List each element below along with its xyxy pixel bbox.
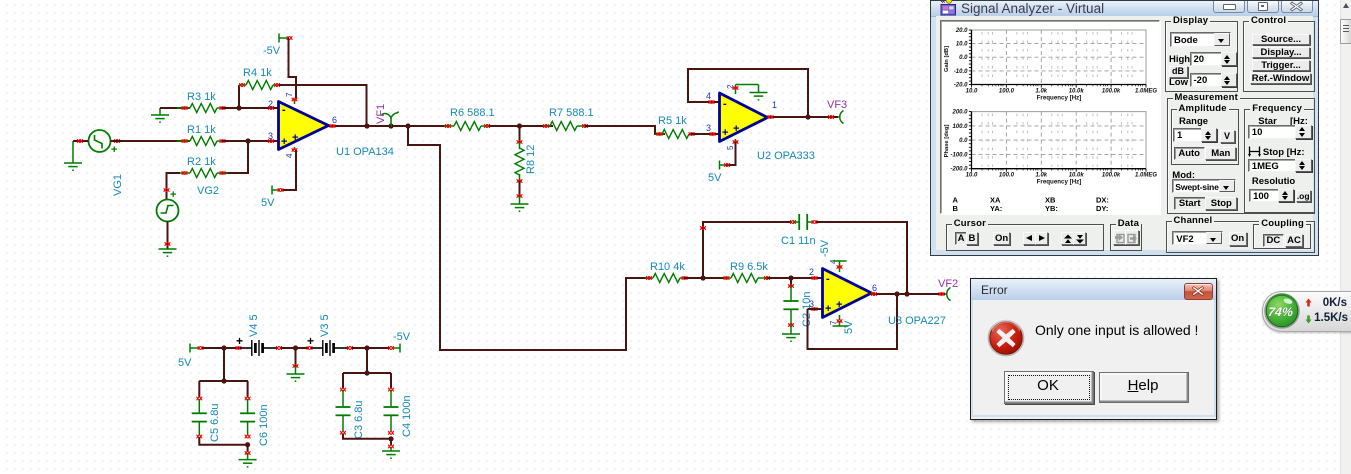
pin number 4 [285,153,294,158]
pin marker V4 right [276,346,282,350]
svg-text:200.0: 200.0 [951,110,968,116]
resistor R1 [177,137,229,146]
content area [936,16,1313,250]
pin marker R7 left [543,124,549,128]
capacitor C2 [784,286,799,325]
svg-text:-: - [282,104,286,116]
power terminal 5V U3 [833,321,849,326]
pin marker R4 right [274,83,280,87]
label 5V rail [178,357,192,369]
pin marker R10 right [682,276,688,280]
svg-text:VG1: VG1 [112,174,124,196]
wire U3 output [869,293,945,295]
svg-text:+: + [111,144,117,156]
label V3 5 [319,314,331,337]
pin marker 5V U2 [724,163,730,167]
svg-text:-: - [826,273,830,285]
label C1 11n [781,235,816,247]
wire C1 to U3 output [816,222,907,294]
graph panel [940,20,1160,214]
power terminal -5V [279,34,287,43]
wire U2 output [766,116,838,118]
pin number 2 [268,99,273,109]
wire C6 top lead [247,381,249,397]
pin marker C1 right [812,220,818,224]
wire U1 output [329,125,449,127]
resistor R7 [543,122,590,131]
pin marker -5V rail [388,346,394,350]
wire C4 top lead [390,373,392,388]
label C2 10n [801,292,813,327]
wire C5 top lead [198,381,200,397]
wire down to third stage [408,126,650,350]
label -5V U3 [819,239,831,257]
wire R10 to R9 [684,277,728,279]
pin marker R1 right [220,139,226,143]
wire left cap rail [199,348,248,381]
junction out A [364,123,369,128]
node VF3 probe [838,111,844,124]
svg-text:1: 1 [772,100,777,110]
svg-text:5: 5 [726,145,735,150]
resistor R9 [723,274,770,283]
svg-text:100.0k: 100.0k [1102,89,1121,95]
wire R9 to U3 pin2 [767,277,822,279]
svg-text:R9 6.5k: R9 6.5k [730,261,768,273]
svg-text:+: + [307,334,314,348]
wire node to R2 [222,141,248,173]
svg-text:U1 OPA134: U1 OPA134 [336,146,394,158]
pin marker R3 left [182,106,188,110]
battery V3 [311,340,348,356]
wire C3 bottom [343,434,391,439]
svg-text:0.0: 0.0 [959,138,968,144]
label C6 100n [258,404,270,446]
node VF1 probe [382,112,399,127]
wire -5V to U1 pin 7 [289,38,297,99]
Cursor group [946,224,1104,251]
wire R3 to U1 pin 2 [222,107,278,109]
pin marker C2 top [788,284,794,288]
pin marker R9 left [724,276,730,280]
pin marker R8 gnd [517,194,523,198]
Signal Analyzer - Virtual window [930,0,1319,256]
label VF2 [938,278,958,290]
svg-text:V4 5: V4 5 [248,314,260,337]
pin marker U2 out [768,115,774,119]
pin number 4 U3 [829,259,838,264]
pin marker R6 left [445,124,451,128]
resistor R8 [515,142,524,181]
Help button [1099,372,1189,403]
pin marker V4 left [236,346,242,350]
svg-text:VF3: VF3 [827,99,847,111]
svg-text:0.0: 0.0 [959,55,968,61]
pin marker R6 right [484,124,490,128]
power terminal 5V rail [190,344,199,353]
pin marker R3 right [220,106,226,110]
svg-text:VG2: VG2 [197,185,219,197]
junction C6 gnd [245,442,250,447]
pin marker VF2 [939,292,945,296]
junction U3 out B [904,291,909,296]
resistor R6 [444,122,492,131]
junction C1 node [700,275,705,280]
wire node up to R4 [238,85,240,108]
wire V4 to V3 [281,347,309,349]
label C4 100n [401,395,413,437]
pin marker U1 pin7 [292,98,298,102]
junction out B [388,123,393,128]
svg-text:YA:: YA: [990,204,1002,213]
svg-text:U3 OPA227: U3 OPA227 [888,315,946,327]
svg-text:5V: 5V [708,172,722,184]
svg-text:74%: 74% [1267,305,1293,319]
wire R4 to output [279,85,367,126]
title text [961,1,1104,16]
wire R6 to R7 [489,125,553,127]
svg-text:R1 1k: R1 1k [187,124,216,136]
wire C5 bottom [199,437,247,445]
voltage source VG2 [157,189,179,222]
wire C3 top lead [342,373,344,388]
resistor R5 [655,130,700,139]
Error dialog [970,278,1217,420]
svg-text:VF2: VF2 [938,278,958,290]
junction R8 node [517,123,522,128]
pin marker U1 pin4 [292,148,298,152]
wire right cap rail [343,348,391,373]
svg-text:V3 5: V3 5 [319,314,331,337]
close button [1281,1,1313,13]
label V4 5 [248,314,260,337]
pin marker C6 top [245,397,251,401]
junction U3 out A [894,291,899,296]
label R8 12 [525,145,537,174]
svg-text:+: + [836,299,842,311]
power terminal 5V [272,186,280,195]
ground of VG1 [64,141,88,170]
svg-text:100.0: 100.0 [999,89,1015,95]
pin marker V3 left [307,346,313,350]
ground of R3 [151,108,169,122]
power terminal -5V rail [393,344,400,353]
pin marker U1 pin3 [268,139,274,143]
resistor R2 [177,169,229,178]
label VF1 [375,104,387,124]
label R6 588.1 [450,107,495,119]
pin marker R10 left [646,276,652,280]
svg-text:2: 2 [809,267,814,277]
junction out C [405,123,410,128]
pin number 3 [268,131,273,141]
capacitor C3 [336,390,351,431]
pin number 3 U3 [809,299,814,309]
svg-text:10.0: 10.0 [956,42,968,48]
pin marker VG2 bottom [165,242,171,246]
pin number 7 U3 [829,320,838,325]
ground of U2 [736,85,768,100]
pin marker C6 gnd [245,451,251,455]
ground of R8 [511,196,529,211]
svg-text:20.0: 20.0 [955,28,968,34]
label R2 1k [187,156,216,168]
wire V3 to -5V [352,347,390,349]
svg-text:100.0: 100.0 [999,173,1015,179]
pin marker C4 bottom [388,431,394,435]
svg-text:10.0: 10.0 [966,89,978,95]
capacitor C1 [793,214,813,230]
pin marker U1 pin2 [268,106,274,110]
svg-text:5V: 5V [843,320,855,334]
Amplitude group [1171,109,1239,165]
ground of C2 [782,325,800,341]
capacitor C6 [240,399,255,435]
svg-text:3: 3 [809,299,814,309]
label plus V4 [236,334,243,348]
pin marker -5V [287,36,293,40]
pin marker U3 pin2 [812,276,818,280]
Display group [1165,21,1238,92]
svg-text:C4 100n: C4 100n [401,395,413,437]
op-amp U1 [279,99,329,150]
ground of rail [287,366,305,381]
ground of VG2 [159,222,177,257]
network speed widget [1262,291,1351,332]
pin number 6 U3 [872,283,877,293]
junction U2 out [805,114,810,119]
pin marker C5 bottom [197,435,203,439]
pin marker R9 right [764,276,770,280]
wire R5 to U2 pin3 [691,133,719,135]
pin marker C4 gnd [388,445,394,449]
pin marker R8 top [517,140,523,144]
svg-text:7: 7 [285,92,294,97]
pin marker R2 left [182,171,188,175]
wire R1 to U1 pin 3 [222,140,278,142]
pin marker VG2 top [164,188,170,192]
svg-text:+: + [281,136,287,148]
pin marker VG1 left [77,139,83,143]
pin marker R5 left [657,132,663,136]
wire C1 loop left [703,222,791,278]
svg-text:-5V: -5V [393,331,411,343]
svg-text:5V: 5V [261,197,275,209]
voltage source VG1 [89,130,118,156]
close button [1184,283,1213,300]
power terminal 5V U2 [720,161,727,170]
Coupling group [1253,224,1311,249]
label R4 1k [243,67,272,79]
pin marker U2 pin4 [709,100,715,104]
pin marker 5V [278,188,284,192]
pin marker U3 out [871,292,877,296]
svg-text:5V: 5V [178,357,192,369]
svg-text:6: 6 [872,283,877,293]
op-amp U2 [720,85,768,143]
svg-text:+: + [825,303,831,315]
wire pin3 stub [808,308,823,310]
pin marker U3 pin3 [812,307,818,311]
wire mid to ground [295,348,297,366]
label VG2 [197,185,219,197]
junction rail B [364,345,369,350]
battery V4 [240,340,277,356]
svg-text:-5V: -5V [263,45,281,57]
Data group [1110,224,1142,251]
pin number 1 U2 [772,100,777,110]
power terminal -5V U3 [833,261,847,266]
wire 5V to V4 [202,347,240,349]
svg-text:+: + [733,123,739,135]
svg-text:C5 6.8u: C5 6.8u [209,403,221,442]
resistor R4 [239,81,281,90]
svg-text:U2 OPA333: U2 OPA333 [757,150,815,162]
maximize button [1247,1,1279,13]
svg-text:+: + [170,189,176,201]
svg-text:10.0: 10.0 [966,173,978,179]
svg-text:C1 11n: C1 11n [781,235,816,247]
pin marker C1 corner [700,226,706,230]
label R7 588.1 [549,107,594,119]
label R9 6.5k [730,261,768,273]
pin marker C4 top [388,388,394,392]
pin marker U1 out [330,124,336,128]
pin marker C3 bottom [340,431,346,435]
svg-text:R8 12: R8 12 [525,145,537,174]
label 5V [261,197,275,209]
svg-text:+: + [236,334,243,348]
wire node to C2 [790,278,792,286]
label VG1 [112,174,124,196]
op-amp U3 [823,266,872,320]
svg-text:3: 3 [268,131,273,141]
label C3 6.8u [353,400,365,439]
pin marker R8 bottom [517,179,523,183]
label C5 6.8u [209,403,221,442]
junction node input [245,138,250,143]
Measurement group [1167,98,1315,214]
label plus V3 [307,334,314,348]
pin marker U3 vplus [837,265,843,269]
svg-text:3: 3 [706,123,711,133]
pin marker 5V rail [198,346,204,350]
svg-text:B: B [953,204,959,213]
pin marker C5 top [197,397,203,401]
pin number 4 U2 [706,91,711,101]
svg-text:C6 100n: C6 100n [258,404,270,446]
pin marker U2 pin2 [733,86,739,90]
label 5V U2 [708,172,722,184]
wire C6 to ground [247,445,249,452]
wire U2 feedback [688,69,808,117]
ground of C6 [239,453,257,467]
pin marker R4 left [239,83,245,87]
junction C2 node [788,275,793,280]
title bar [931,1,1318,17]
pin marker R5 right [689,132,695,136]
resistor R10 [645,274,690,283]
svg-text:R3 1k: R3 1k [187,91,216,103]
pin marker U2 pin3 [710,132,716,136]
capacitor C4 [384,390,399,431]
svg-text:Gain [dB]: Gain [dB] [944,46,950,72]
svg-text:-: - [723,98,727,110]
pin marker mid gnd [293,364,299,368]
pin number 7 [285,92,294,97]
wire U3 feedback [808,294,898,349]
wire VG1 to R1 [111,140,191,142]
right scrollbar [1340,0,1351,474]
pin marker VF3 [828,115,834,119]
Frequency group [1244,109,1315,213]
wire C4 to ground [390,439,392,446]
svg-text:R6 588.1: R6 588.1 [450,107,495,119]
pin marker V3 right [347,346,353,350]
svg-text:100.0: 100.0 [952,124,968,130]
svg-text:1.0MEG: 1.0MEG [1135,89,1157,95]
wire R8 to ground [519,181,521,196]
svg-text:-100.0: -100.0 [950,152,968,158]
svg-text:-5V: -5V [819,239,831,257]
junction right rail [364,370,369,375]
svg-text:VF1: VF1 [375,104,387,124]
svg-text:YB:: YB: [1045,204,1058,213]
label VF3 [827,99,847,111]
junction left rail [221,378,226,383]
junction rail mid [293,345,298,350]
pin marker C6 bottom [245,435,251,439]
junction C4 gnd [388,436,393,441]
svg-text:DY:: DY: [1096,204,1108,213]
OK button [1004,371,1094,404]
wire node to R8 [519,126,521,142]
pin number 2 U3 [809,267,814,277]
wire R7 to R5 [585,126,665,134]
svg-text:Phase [deg]: Phase [deg] [944,125,950,158]
svg-text:1.0MEG: 1.0MEG [1135,173,1157,179]
pin marker U2 pin5 [733,140,739,144]
svg-text:R5 1k: R5 1k [658,115,687,127]
junction node fb [236,105,241,110]
svg-text:100.0k: 100.0k [1102,173,1121,179]
svg-text:R2 1k: R2 1k [187,156,216,168]
pin number 3 U2 [706,123,711,133]
label U2 OPA333 [757,150,815,162]
svg-text:4: 4 [285,153,294,158]
svg-text:-10.0: -10.0 [954,69,968,75]
label R3 1k [187,91,216,103]
svg-text:4: 4 [706,91,711,101]
label U3 OPA227 [888,315,946,327]
label -5V [263,45,281,57]
node VF2 probe [945,288,951,301]
label -5V rail [393,331,411,343]
capacitor C5 [192,399,207,435]
pin marker R2 right [220,171,226,175]
wire U1 pin4 to 5V [281,150,296,190]
pin marker R1 left [182,139,188,143]
minimize button [1213,1,1245,13]
label 5V U3 [843,320,855,334]
label R5 1k [658,115,687,127]
Control group [1243,21,1315,92]
pin number 6 [332,115,337,125]
pin number 2 U2 [726,84,735,89]
pin marker U3 vminus [837,319,843,323]
label R1 1k [187,124,216,136]
window icon [940,0,957,16]
